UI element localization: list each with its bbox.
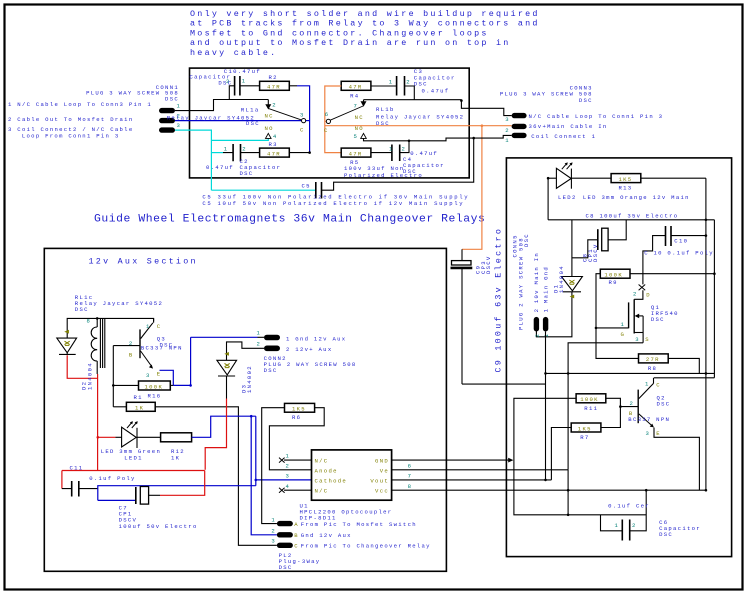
resistor R3 [260,148,290,157]
svg-text:1: 1 [224,146,229,153]
svg-text:Gnd 12v Aux: Gnd 12v Aux [301,532,352,539]
svg-text:R11: R11 [584,405,598,412]
svg-text:0.47uf: 0.47uf [410,150,438,157]
svg-text:7: 7 [408,473,413,480]
svg-text:100K: 100K [145,383,164,390]
svg-text:2: 2 [406,79,411,86]
svg-text:BC337 NPN: BC337 NPN [628,416,670,423]
relay RL1c labels [75,294,163,313]
svg-text:1: 1 [543,333,550,338]
svg-text:0.47uf: 0.47uf [422,88,450,95]
svg-text:5: 5 [354,133,359,140]
svg-text:DSC: DSC [75,306,89,313]
svg-text:A: A [294,521,299,528]
svg-text:Loop From Conn1 Pin 3: Loop From Conn1 Pin 3 [22,132,120,139]
CONN3 pin 1 [512,133,527,138]
svg-text:2: 2 [286,463,291,470]
diode D1 [571,220,573,278]
NC net RL1b to CONN3 pin3 [460,99,463,102]
svg-text:3: 3 [300,111,305,118]
svg-text:2: 2 [633,291,638,298]
svg-text:RL1a: RL1a [241,107,260,114]
svg-text:1: 1 [242,78,247,85]
svg-text:N/C Cable Loop To Conn1 Pin 3: N/C Cable Loop To Conn1 Pin 3 [529,113,664,120]
CONN5 pill 1 [543,317,548,332]
CONN3 pin 2 [512,124,527,129]
diode D3 [217,360,237,375]
svg-text:36v+Main Cable In: 36v+Main Cable In [529,123,608,130]
svg-text:E: E [656,430,661,437]
svg-text:2: 2 [630,400,635,407]
svg-text:DSC: DSC [414,80,428,87]
LED1 [97,436,100,439]
svg-text:0.47uf: 0.47uf [206,164,234,171]
svg-text:Polarized Electro: Polarized Electro [344,172,423,179]
svg-text:DSC: DSC [279,564,293,571]
relay RL1a contacts [267,100,269,105]
connector CONN3 labels [500,85,663,140]
svg-text:DSC: DSC [376,120,390,127]
connector CONN2 [264,335,280,341]
transistor Q2 [637,390,639,424]
svg-text:S: S [645,336,650,343]
CONN1 pin 2 [159,118,175,123]
svg-text:2 Cable Out To Mosfet Drain: 2 Cable Out To Mosfet Drain [8,116,133,123]
svg-text:1: 1 [615,522,620,529]
svg-text:Guide Wheel Electromagnets 36v: Guide Wheel Electromagnets 36v Main Chan… [94,214,485,226]
svg-text:R3: R3 [269,141,278,148]
svg-text:100K: 100K [580,396,599,403]
svg-text:at PCB tracks from Relay to 3: at PCB tracks from Relay to 3 Way connec… [190,19,540,29]
svg-text:DSC: DSC [264,367,278,374]
svg-text:DSC: DSC [240,170,254,177]
CONN1 pin 3 [159,127,175,132]
svg-text:3: 3 [146,372,151,379]
svg-text:12v Aux Section: 12v Aux Section [89,257,198,267]
wire pin1 to NC arm RL1a [175,100,268,111]
resistor R9 [600,269,630,278]
svg-text:1 Gnd 12v Aux: 1 Gnd 12v Aux [286,335,346,342]
resistor R12 [137,436,161,438]
svg-text:0.1uf Cer: 0.1uf Cer [608,503,650,510]
svg-text:Relay Jaycar SY4052: Relay Jaycar SY4052 [167,114,255,121]
svg-text:DSC: DSC [165,95,179,102]
wire CONN2 pin2 / D3 [227,342,265,360]
svg-text:From Pic To Mosfet Switch: From Pic To Mosfet Switch [301,521,417,528]
svg-text:From Pic To Changeover Relay: From Pic To Changeover Relay [301,543,431,550]
svg-text:B: B [294,532,299,539]
svg-text:47R: 47R [349,150,363,157]
svg-text:Only very short solder and wir: Only very short solder and wire buildup … [190,9,540,19]
NO net RL1b to CONN3 pin1 [364,135,512,140]
svg-text:1: 1 [177,103,182,110]
svg-text:1K: 1K [135,405,144,412]
svg-text:1: 1 [286,453,291,460]
wire pin3 cyan net [175,130,211,190]
U1 GND lead with arrow [392,459,511,461]
svg-text:3: 3 [635,336,640,343]
svg-text:6: 6 [325,111,330,118]
diode D2 [57,338,77,353]
top relay box [190,68,470,178]
svg-text:1N4004: 1N4004 [86,362,93,390]
mosfet Q1 [639,285,646,291]
svg-text:DSC: DSC [657,401,671,408]
svg-text:2: 2 [242,146,247,153]
svg-text:C11: C11 [70,464,84,471]
svg-text:1K5: 1K5 [292,406,306,413]
svg-text:GND: GND [375,458,389,465]
svg-text:2: 2 [226,78,231,85]
svg-text:R13: R13 [619,185,633,192]
svg-text:100uf 50v Electro: 100uf 50v Electro [119,523,198,530]
svg-text:3: 3 [177,122,182,129]
svg-text:2: 2 [632,522,637,529]
svg-text:C8 100uf 35v Electro: C8 100uf 35v Electro [586,212,679,219]
svg-text:NO: NO [355,125,364,132]
panel mid rail [546,372,715,374]
red wire D3 to red rail [205,399,226,470]
svg-text:LED2: LED2 [558,194,577,201]
svg-text:C: C [656,382,661,389]
svg-text:R9: R9 [609,279,618,286]
top rail of panel [548,219,714,221]
svg-text:47R: 47R [349,84,363,91]
svg-text:1: 1 [257,330,262,337]
bottom Vcc rail [392,489,707,491]
svg-text:2 12v+ Aux: 2 12v+ Aux [286,346,332,353]
capacitor C11 [72,481,79,497]
capacitor C6 [622,520,629,541]
top wire D2/coil/Q3 [67,318,153,338]
wire CONN2 pin1 [191,336,258,338]
svg-text:0.1uf Poly: 0.1uf Poly [89,475,135,482]
svg-text:C9 100uf 63v Electro: C9 100uf 63v Electro [494,227,504,373]
svg-text:NC: NC [355,114,364,121]
wire pin2 blue to common C RL1a [175,120,302,122]
svg-text:4: 4 [273,133,278,140]
svg-text:PLUG 2 WAY SCREW 508: PLUG 2 WAY SCREW 508 [517,237,524,330]
capacitor C9 electrolytic [461,249,463,260]
orange 36v main wire [325,125,512,127]
svg-text:8: 8 [408,483,413,490]
svg-text:DSC: DSC [523,233,530,247]
svg-text:E: E [157,370,162,377]
svg-text:1N4002: 1N4002 [246,365,253,393]
svg-text:R4: R4 [350,92,359,99]
wire pin1 down to C5 [322,138,474,190]
wire C9 to right panel rail [462,383,546,385]
blue net C11/C7/U1 [98,486,256,501]
svg-text:Vout: Vout [370,477,389,484]
LED2 [548,177,556,179]
resistor R11 [576,394,606,403]
svg-text:DSCV: DSCV [485,255,492,274]
capacitor C10 poly [666,226,672,246]
svg-text:Coil Connect 1: Coil Connect 1 [531,133,596,140]
svg-text:2: 2 [272,102,277,109]
orange bridge wire R4/R5 [325,86,341,153]
svg-text:Vcc: Vcc [375,488,389,495]
capacitor C10 [235,76,240,96]
resistor R1 [126,402,155,411]
resistor R5 [341,148,371,157]
right panel box [506,158,731,557]
svg-text:2: 2 [534,333,541,338]
svg-text:1: 1 [389,79,394,86]
svg-text:1 Main Gnd: 1 Main Gnd [543,266,550,312]
svg-text:Cathode: Cathode [315,477,348,484]
svg-text:N/C: N/C [315,488,329,495]
svg-text:DSC: DSC [659,531,673,538]
svg-text:3: 3 [271,538,276,545]
svg-text:R8: R8 [648,365,657,372]
12v Aux Section box [44,248,446,571]
svg-text:3: 3 [286,473,291,480]
capacitor C4 [392,145,400,162]
svg-text:G: G [621,331,626,338]
svg-text:C: C [157,323,162,330]
red rail [62,470,205,472]
CONN5 pill 2 [534,317,539,332]
svg-text:1: 1 [645,381,650,388]
transistor Q3 [139,329,141,358]
svg-text:C: C [294,543,299,550]
svg-text:47R: 47R [267,84,281,91]
capacitor C8 electrolytic [597,229,599,250]
svg-text:2: 2 [271,528,276,535]
blue emitter net [160,370,174,385]
right vertical from R13 [705,178,707,490]
svg-text:1: 1 [146,323,151,330]
svg-text:3: 3 [505,116,510,123]
svg-text:1: 1 [505,137,510,144]
svg-text:100K: 100K [604,272,623,279]
svg-text:1K: 1K [171,455,180,462]
svg-text:C 10 0.1uf Poly: C 10 0.1uf Poly [644,250,714,257]
resistor R8 [639,354,669,363]
svg-text:R6: R6 [292,414,301,421]
svg-text:1 N/C Cable Loop To Conn3 Pin: 1 N/C Cable Loop To Conn3 Pin 1 [8,101,152,108]
svg-text:3: 3 [646,430,651,437]
svg-text:C: C [300,126,305,133]
connector PL2 [277,521,293,526]
svg-text:and output to Mosfet Drain are: and output to Mosfet Drain are run on to… [190,38,511,48]
svg-text:C10: C10 [674,238,688,245]
svg-text:6: 6 [408,463,413,470]
resistor R7 [571,423,601,432]
svg-text:NC: NC [265,112,274,119]
U1 pin1 N/C [284,459,312,461]
svg-text:4: 4 [286,483,291,490]
svg-text:DSC: DSC [651,316,665,323]
resistor R13 [611,174,641,183]
svg-text:2: 2 [129,340,134,347]
svg-text:R7: R7 [580,434,589,441]
svg-text:2 10v Main In: 2 10v Main In [533,252,540,312]
red wire coil bottom down [96,361,98,374]
svg-text:DSC: DSC [579,97,593,104]
svg-text:N/C: N/C [315,458,329,465]
U1 pin4 N/C [284,489,312,491]
capacitor C3 [397,76,405,96]
svg-text:RL1b: RL1b [376,106,395,113]
capacitor C7 electrolytic [135,487,137,504]
svg-text:1: 1 [389,146,394,153]
CONN1 pin 1 [159,108,175,113]
CONN3 pin 3 [512,113,527,118]
resistor R2 [260,81,290,90]
svg-text:C5 10uf 50v Non Polarized Ele: C5 10uf 50v Non Polarized Electro if 12v… [202,200,464,207]
svg-text:BC337 NPN: BC337 NPN [141,345,183,352]
resistor R6 [285,403,315,412]
svg-text:2: 2 [402,146,407,153]
svg-text:2: 2 [257,341,262,348]
svg-text:C5: C5 [302,183,311,190]
connector CONN1 labels [8,84,179,139]
svg-text:1K5: 1K5 [578,425,592,432]
resistor R16 [139,381,171,390]
resistor R4 [341,81,371,90]
svg-text:Mosfet to Gnd connector. Chang: Mosfet to Gnd connector. Changeover loop… [190,28,489,38]
svg-text:LED 3mm Orange 12v Main: LED 3mm Orange 12v Main [583,194,690,201]
capacitor C5 [316,182,322,199]
svg-text:47R: 47R [267,150,281,157]
U1 Ve lead [392,469,568,471]
note text block [190,9,540,58]
svg-text:R16: R16 [148,392,162,399]
U1 Vout lead [392,479,552,481]
opto-coupler U1 [312,450,392,500]
capacitor C2 [233,144,240,161]
svg-text:DSCV: DSCV [592,243,599,262]
svg-text:NO: NO [265,125,274,132]
svg-text:1K5: 1K5 [619,176,633,183]
svg-text:R2: R2 [269,74,278,81]
CONN5 vertical labels [512,233,550,330]
svg-text:1: 1 [621,321,626,328]
blue net to PL2 pin B [250,415,253,418]
relay RL1b contacts [364,99,462,101]
svg-text:DSC: DSC [246,120,260,127]
svg-text:heavy cable.: heavy cable. [190,48,277,58]
svg-text:Anode: Anode [315,467,338,474]
svg-text:1: 1 [271,517,276,524]
svg-text:27R: 27R [646,356,660,363]
svg-text:D: D [646,292,651,299]
svg-text:Ve: Ve [380,467,389,474]
svg-text:2: 2 [505,127,510,134]
svg-text:C: C [324,127,329,134]
svg-text:R1: R1 [134,394,143,401]
svg-text:1N4004: 1N4004 [558,265,565,293]
svg-text:B: B [129,352,134,359]
svg-text:LED1: LED1 [124,455,143,462]
RL1c coil [96,318,98,327]
svg-text:7: 7 [354,103,359,110]
